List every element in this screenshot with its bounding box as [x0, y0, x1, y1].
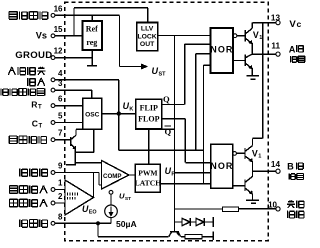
svg-text:V: V: [253, 30, 259, 40]
svg-text:10: 10: [268, 200, 277, 209]
svg-text:P: P: [171, 172, 175, 178]
svg-text:1: 1: [58, 179, 63, 188]
svg-text:15: 15: [54, 25, 63, 34]
svg-text:2: 2: [58, 192, 63, 201]
svg-text:V: V: [252, 149, 258, 159]
svg-text:Q: Q: [165, 126, 172, 136]
svg-text:Ref: Ref: [86, 25, 98, 34]
svg-text:NOR: NOR: [210, 45, 233, 55]
svg-text:reg: reg: [86, 38, 97, 47]
svg-text:ST: ST: [159, 71, 167, 77]
svg-text:FLOP: FLOP: [138, 115, 159, 124]
svg-text:EO: EO: [89, 210, 97, 216]
svg-text:6: 6: [58, 95, 63, 104]
svg-text:1: 1: [259, 35, 262, 41]
svg-text:16: 16: [54, 4, 63, 13]
svg-text:NOR: NOR: [210, 161, 233, 171]
svg-text:LLV: LLV: [141, 26, 154, 33]
svg-text:ST: ST: [125, 196, 131, 202]
svg-text:PWM: PWM: [138, 168, 157, 177]
svg-text:LOCK: LOCK: [137, 33, 156, 40]
svg-text:OSC: OSC: [85, 112, 100, 119]
svg-text:COMP: COMP: [103, 173, 122, 180]
svg-text:14: 14: [271, 160, 281, 169]
svg-text:50µA: 50µA: [116, 219, 137, 229]
svg-text:11: 11: [271, 41, 280, 50]
svg-text:GROUD: GROUD: [15, 50, 52, 61]
svg-text:A: A: [289, 44, 296, 54]
svg-text:C: C: [32, 118, 38, 128]
svg-text:9: 9: [58, 162, 63, 171]
svg-text:Vs: Vs: [36, 31, 47, 41]
svg-text:K: K: [129, 107, 133, 113]
svg-text:OUT: OUT: [140, 41, 155, 48]
svg-text:FLIP: FLIP: [140, 104, 158, 113]
svg-text:1: 1: [258, 154, 261, 160]
svg-text:Q: Q: [163, 94, 170, 104]
svg-text:T: T: [39, 123, 43, 129]
svg-text:12: 12: [54, 47, 63, 56]
svg-text:T: T: [38, 105, 42, 111]
svg-text:7: 7: [58, 129, 63, 138]
svg-text:5: 5: [58, 112, 63, 121]
svg-text:B: B: [287, 162, 294, 172]
svg-text:c: c: [297, 19, 302, 29]
svg-text:LATCH: LATCH: [135, 179, 162, 188]
svg-text:8: 8: [58, 212, 63, 221]
svg-text:4: 4: [58, 69, 63, 78]
svg-text:V: V: [289, 19, 296, 30]
svg-text:13: 13: [271, 13, 281, 22]
svg-text:U: U: [152, 66, 159, 76]
